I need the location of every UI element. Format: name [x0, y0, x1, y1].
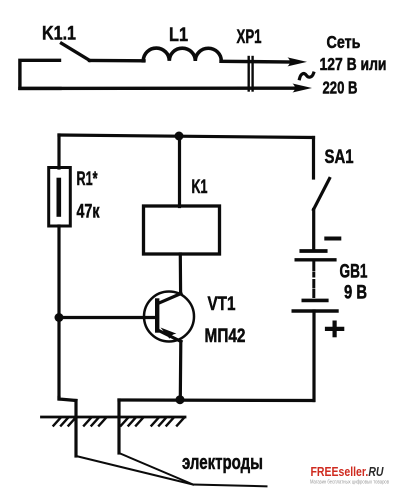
label 9 В	[344, 283, 367, 304]
label ~ AC symbol	[300, 73, 314, 79]
svg-text:GB1: GB1	[340, 262, 368, 283]
svg-text:FREEseller.RU: FREEseller.RU	[311, 464, 384, 479]
svg-text:XP1: XP1	[237, 27, 262, 48]
label SA1	[325, 147, 354, 168]
svg-text:R1*: R1*	[77, 169, 98, 190]
label XP1	[237, 27, 262, 48]
label plus	[327, 323, 342, 336]
switch K1.1 blade	[62, 43, 90, 60]
label K1	[192, 177, 208, 198]
label minus	[326, 237, 339, 241]
label R1*	[77, 169, 98, 190]
label 47к	[77, 202, 100, 223]
transistor VT1	[144, 292, 194, 342]
wire right branch upper	[312, 138, 315, 179]
svg-text:VT1: VT1	[208, 294, 236, 315]
leader line electrode 1	[76, 456, 193, 485]
label 220 В	[323, 77, 358, 97]
label Сеть	[327, 32, 361, 52]
label K1.1	[42, 24, 76, 45]
arrow mains 220V	[293, 84, 313, 93]
label 127 В или	[320, 54, 387, 74]
wire bottom bus	[119, 398, 314, 402]
label электроды	[182, 452, 263, 474]
node junction top (K1 tap)	[175, 132, 184, 141]
inductor L1	[143, 48, 221, 61]
label VT1	[208, 294, 236, 315]
relay K1 coil box	[144, 206, 220, 254]
ground hatching	[54, 418, 185, 426]
wire K1 to collector	[179, 254, 183, 294]
electrode 1	[74, 401, 77, 457]
wire emitter down	[179, 342, 183, 400]
electrode 2	[117, 400, 120, 453]
connector XP1	[249, 57, 253, 91]
label L1	[169, 25, 188, 46]
svg-text:МП42: МП42	[205, 326, 246, 347]
watermark subtitle	[310, 480, 389, 486]
svg-text:Сеть: Сеть	[327, 32, 361, 52]
wire K1 branch upper	[178, 136, 181, 207]
ground earth line	[42, 416, 186, 419]
node junction emitter	[176, 395, 185, 404]
label GB1	[340, 262, 368, 283]
wire base	[59, 316, 157, 319]
wire SA1 to battery	[312, 210, 315, 251]
resistor R1 body	[49, 168, 71, 227]
wire left branch lower	[57, 226, 60, 399]
wire right branch lower	[312, 311, 315, 401]
watermark FREEseller.RU	[311, 464, 384, 479]
battery GB1	[293, 251, 337, 311]
label МП42	[205, 326, 246, 347]
arrow mains 127V	[288, 57, 308, 66]
svg-text:SA1: SA1	[325, 147, 354, 168]
svg-text:Магазин бесплатных цифровых то: Магазин бесплатных цифровых товаров	[310, 480, 389, 486]
svg-text:L1: L1	[169, 25, 188, 46]
wire switch to inductor	[90, 59, 145, 63]
svg-text:электроды: электроды	[182, 452, 263, 474]
wire mains bottom conductor	[20, 86, 298, 90]
wire mains top-left bracket	[20, 60, 60, 88]
svg-text:K1: K1	[192, 177, 208, 198]
svg-text:47к: 47к	[77, 202, 100, 223]
wire inductor to arrow	[221, 60, 294, 64]
leader underline	[193, 485, 267, 487]
wire top bus	[59, 135, 314, 138]
switch SA1 blade	[314, 179, 330, 210]
svg-text:K1.1: K1.1	[42, 24, 76, 45]
node junction base tap	[55, 313, 64, 322]
svg-text:127 В или: 127 В или	[320, 54, 387, 74]
wire left branch upper	[57, 135, 60, 168]
leader line electrode 2	[119, 453, 193, 485]
svg-text:220 В: 220 В	[323, 77, 358, 97]
svg-text:9 В: 9 В	[344, 283, 367, 304]
wire left jog to electrode 1	[59, 398, 76, 401]
